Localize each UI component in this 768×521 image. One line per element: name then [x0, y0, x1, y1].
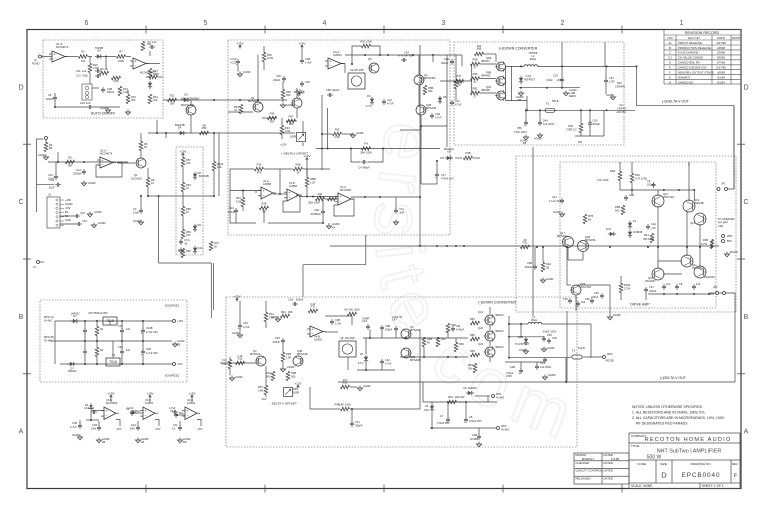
svg-text:CHECKED: CHECKED — [576, 461, 590, 465]
svg-text:C8: C8 — [469, 415, 473, 419]
svg-text:2SC1815: 2SC1815 — [131, 177, 142, 181]
svg-text:4.7uF: 4.7uF — [387, 102, 394, 106]
svg-text:AGND: AGND — [519, 348, 527, 352]
svg-text:IN 4AC: IN 4AC — [44, 319, 52, 323]
ecap C55 47uF 100V — [524, 121, 528, 123]
svg-text:+12V: +12V — [294, 381, 302, 385]
ecap 4.7uF stage 2 — [131, 410, 133, 414]
svg-text:350 1/2W: 350 1/2W — [643, 237, 655, 241]
ground AGND drive bottom — [609, 315, 611, 318]
jack +15V out — [173, 320, 176, 323]
svg-text:C26: C26 — [243, 321, 248, 325]
resistor RT1 9B left entry — [455, 79, 464, 83]
svg-text:240: 240 — [477, 44, 482, 48]
transistor Q4B MPSA2B — [293, 356, 303, 366]
svg-text:BAV70-ON: BAV70-ON — [181, 103, 194, 107]
svg-text:C1: C1 — [668, 56, 672, 60]
ground bank small — [525, 349, 527, 352]
wire B4 exit right y66 — [635, 65, 637, 67]
svg-text:APP'D: APP'D — [732, 36, 741, 40]
svg-text:AGND: AGND — [232, 331, 240, 335]
resistor R4B 47K — [618, 172, 622, 181]
svg-text:D3: D3 — [367, 94, 371, 98]
svg-text:4.1: 4.1 — [172, 427, 176, 431]
capacitor C1B 4.7uF — [430, 114, 434, 116]
svg-text:35K: 35K — [131, 98, 136, 102]
svg-text:TITLE:: TITLE: — [631, 444, 640, 448]
svg-text:C14: C14 — [76, 168, 81, 172]
transistor Q15 2SA1837 — [652, 268, 664, 280]
svg-text:.015uF: .015uF — [227, 210, 235, 214]
dots y100 — [213, 99, 215, 101]
svg-text:4.7uF 35V: 4.7uF 35V — [146, 351, 158, 355]
resistor R6 input vertical — [44, 143, 48, 152]
resistor RB7 a — [95, 327, 99, 336]
svg-text:R67: R67 — [258, 385, 263, 389]
svg-text:LM358: LM358 — [263, 182, 271, 186]
ground B2 a — [239, 72, 241, 75]
svg-text:+15V: +15V — [107, 391, 115, 395]
svg-text:1uF: 1uF — [666, 282, 671, 286]
feedback wires B6 — [419, 330, 421, 409]
resistor R21 on y100 — [168, 98, 177, 102]
diode Z6 C21 bottom row — [89, 405, 93, 408]
drive bottom wires — [575, 295, 577, 311]
svg-text:MPS (A): MPS (A) — [44, 315, 54, 319]
svg-text:50A: 50A — [135, 409, 140, 413]
svg-text:4.7uF: 4.7uF — [435, 116, 442, 120]
svg-text:TNF9B: TNF9B — [95, 46, 103, 50]
svg-text:U5: U5 — [340, 336, 344, 340]
svg-text:35K: 35K — [286, 93, 291, 97]
transistor Q6b MPSA0B — [401, 348, 411, 358]
svg-text:NEW REV OUTPUT STAGE: NEW REV OUTPUT STAGE — [678, 71, 714, 75]
svg-text:RELEASED: RELEASED — [576, 476, 591, 480]
transistor Q17 driver a — [563, 237, 574, 248]
wire vertical x303 into B6 — [302, 265, 304, 297]
wire B1 exit right — [146, 76, 149, 78]
svg-text:TO-FB7SET: TO-FB7SET — [515, 342, 530, 346]
capacitor C3B — [101, 88, 105, 90]
svg-text:C4T: C4T — [118, 324, 123, 328]
svg-text:-15V: -15V — [65, 206, 71, 210]
svg-text:AGND: AGND — [548, 373, 556, 377]
svg-text:LM393: LM393 — [333, 53, 342, 57]
svg-text:C41: C41 — [355, 420, 360, 424]
svg-text:DATED: DATED — [604, 469, 613, 473]
resistor R6B 1K mid — [294, 167, 303, 171]
svg-text:2BA 1/2W: 2BA 1/2W — [360, 151, 372, 155]
svg-text:IRF644: IRF644 — [481, 59, 490, 63]
dashed box control B2 — [228, 40, 450, 235]
wire fuse — [509, 357, 570, 359]
svg-text:10uF: 10uF — [133, 211, 139, 215]
resistor R41 2BA 1/2W — [362, 147, 371, 151]
svg-text:100: 100 — [186, 233, 191, 237]
svg-text:C12 .015u: C12 .015u — [76, 74, 89, 78]
resistor R2B 4B mid — [260, 206, 269, 210]
svg-text:R84: R84 — [468, 363, 473, 367]
svg-text:MC34074: MC34074 — [56, 45, 69, 49]
svg-text:(+)DOWN CONVERTER: (+)DOWN CONVERTER — [499, 47, 538, 51]
svg-text:500R: 500R — [293, 391, 299, 395]
svg-text:C4A: C4A — [651, 222, 656, 226]
svg-text:NHT SubTwo | AMPLIFIER: NHT SubTwo | AMPLIFIER — [657, 449, 722, 455]
svg-text:LM393: LM393 — [187, 401, 195, 405]
svg-text:C34: C34 — [404, 51, 409, 55]
svg-text:C25: C25 — [275, 336, 280, 340]
diode D4 drive — [610, 232, 614, 236]
mosfet M6 IRF644 bank — [485, 331, 495, 341]
B4 main wire y66 — [506, 65, 525, 67]
svg-text:GND: GND — [65, 218, 71, 222]
wire delta v out top — [637, 105, 735, 107]
svg-text:C10 1uF: C10 1uF — [80, 101, 91, 105]
node dots y55 bus — [364, 54, 366, 56]
capacitor C2B 1.4uF — [300, 59, 304, 61]
capacitor C47 4.5uF — [394, 327, 398, 329]
svg-text:7915: 7915 — [109, 360, 117, 364]
resistor R44 10K — [148, 95, 152, 104]
svg-text:980: 980 — [289, 122, 294, 126]
diode D4 BAV64A right — [447, 156, 451, 160]
svg-text:.1uF: .1uF — [125, 348, 131, 352]
svg-text:C52: C52 — [585, 297, 590, 301]
capacitor C25 033uF — [281, 339, 285, 341]
svg-text:C3: C3 — [133, 207, 137, 211]
svg-text:WP1: WP1 — [727, 234, 733, 238]
svg-text:4.8uF: 4.8uF — [546, 78, 553, 82]
svg-text:SHEET: 1 OF 1: SHEET: 1 OF 1 — [702, 484, 724, 488]
svg-text:C55: C55 — [517, 126, 522, 130]
wire y162 input — [48, 161, 128, 163]
resistor R16 horizontal — [112, 76, 121, 80]
resistor R43 5.9K — [280, 126, 284, 135]
op-amp U1-A LM358 mid — [261, 187, 273, 199]
svg-text:R16: R16 — [114, 79, 119, 83]
svg-text:R81: R81 — [470, 317, 475, 321]
title block — [574, 433, 740, 489]
svg-text:D44: D44 — [543, 119, 548, 123]
svg-text:4.7V: 4.7V — [366, 104, 372, 108]
svg-text:600uF: 600uF — [296, 298, 304, 302]
svg-text:R64: R64 — [635, 173, 640, 177]
svg-text:.33uF: .33uF — [48, 186, 55, 190]
zener Z3 5.1V — [364, 357, 368, 361]
svg-text:.1uF: .1uF — [399, 211, 405, 215]
svg-text:R62: R62 — [441, 337, 446, 341]
svg-text:4/5/99: 4/5/99 — [717, 71, 725, 75]
svg-text:2/1/97: 2/1/97 — [717, 80, 725, 84]
resistor R6 4B — [100, 71, 109, 75]
svg-text:+12V: +12V — [280, 143, 287, 147]
capacitor C10 1uF — [88, 105, 90, 109]
svg-text:D6: D6 — [443, 95, 447, 99]
svg-text:C2B: C2B — [472, 433, 477, 437]
ecap C4B 470uF 200V — [519, 369, 523, 371]
ground MGND speaker — [726, 252, 728, 255]
svg-text:C43: C43 — [540, 361, 545, 365]
jack WP2 output — [603, 356, 606, 359]
svg-text:-RC/5B: -RC/5B — [605, 359, 614, 363]
fuse F1 output — [572, 355, 582, 359]
svg-text:+15V: +15V — [177, 319, 183, 323]
capacitor CF2 rail — [675, 285, 679, 287]
resistor RT1 B6 — [309, 309, 318, 313]
svg-text:R43: R43 — [236, 196, 241, 200]
svg-text:R4B: R4B — [334, 403, 339, 407]
resistor C12 15K left — [228, 360, 232, 369]
svg-text:C19: C19 — [553, 74, 558, 78]
svg-text:RECOTON HOME AUDIO: RECOTON HOME AUDIO — [645, 437, 732, 443]
svg-text:1/7W: 1/7W — [701, 242, 708, 246]
transistor Q1 MPSA0B left — [253, 102, 263, 112]
svg-text:R1: R1 — [100, 327, 104, 331]
svg-text:4.7uF: 4.7uF — [243, 325, 250, 329]
svg-text:(+)DELTA V OUT: (+)DELTA V OUT — [662, 100, 690, 104]
inductor L1 bank horizontal — [528, 322, 542, 324]
ecap C44B 4.7uF 35V — [141, 329, 145, 331]
svg-text:R66: R66 — [459, 342, 464, 346]
resistor R16 470 mid — [255, 167, 264, 171]
svg-text:SOURCE1: SOURCE1 — [165, 304, 180, 308]
svg-text:-15V: -15V — [155, 427, 161, 431]
svg-text:R5: R5 — [68, 156, 72, 160]
svg-text:WP2: WP2 — [607, 352, 613, 356]
capacitor C41 drive — [560, 199, 564, 201]
svg-text:C3D: C3D — [314, 208, 319, 212]
svg-text:OP-2NP: OP-2NP — [354, 68, 364, 72]
dashed box drive amp inner — [560, 162, 716, 308]
svg-text:AGND: AGND — [177, 339, 185, 343]
svg-text:AGND: AGND — [65, 202, 73, 206]
svg-text:AGND: AGND — [133, 219, 141, 223]
svg-text:5x0-B: 5x0-B — [578, 346, 585, 350]
svg-text:4.7K 1/2W: 4.7K 1/2W — [635, 177, 648, 181]
svg-text:AGND: AGND — [88, 181, 96, 185]
resistor PNK 270R — [579, 124, 583, 133]
resistor R7B — [583, 215, 587, 224]
svg-text:WP1: WP1 — [496, 392, 502, 396]
svg-text:WP2: WP2 — [501, 424, 507, 428]
svg-text:500 W: 500 W — [647, 455, 662, 461]
svg-text:R83: R83 — [470, 349, 475, 353]
svg-text:1N4002: 1N4002 — [67, 369, 77, 373]
svg-text:15K: 15K — [217, 165, 222, 169]
svg-text:900: 900 — [270, 120, 275, 124]
svg-text:900: 900 — [266, 375, 271, 379]
svg-text:35uH: 35uH — [530, 57, 536, 61]
svg-text:270R 1/2: 270R 1/2 — [566, 128, 577, 132]
svg-text:C17: C17 — [441, 173, 446, 177]
wire B1 input — [41, 56, 52, 58]
svg-text:MPSA2B: MPSA2B — [297, 352, 308, 356]
node 2 — [83, 161, 85, 163]
svg-text:PROTO RELEASE: PROTO RELEASE — [678, 41, 702, 45]
svg-text:GARP: GARP — [362, 317, 370, 321]
svg-text:C58 .022uF: C58 .022uF — [326, 88, 340, 92]
ground left B6 — [231, 376, 233, 379]
ground AGND J2 a — [89, 212, 91, 215]
svg-text:C6B: C6B — [527, 261, 532, 265]
svg-text:+ DELTA 0 OFFSET: + DELTA 0 OFFSET — [281, 152, 308, 156]
svg-text:AGND: AGND — [235, 375, 243, 379]
svg-text:MPS4N6: MPS4N6 — [585, 238, 596, 242]
B6 wires misc — [369, 329, 371, 338]
svg-text:IRF644: IRF644 — [495, 345, 504, 349]
svg-text:AGND: AGND — [98, 221, 106, 225]
svg-text:PGND: PGND — [32, 62, 40, 66]
wire y357 B6 — [400, 356, 468, 358]
svg-text:D9: D9 — [198, 223, 202, 227]
resistor R4B 14K — [341, 407, 350, 411]
svg-text:5W-B: 5W-B — [552, 99, 559, 103]
svg-text:MPSA0B: MPSA0B — [294, 90, 305, 94]
svg-text:C22: C22 — [455, 99, 460, 103]
svg-text:D: D — [669, 61, 671, 65]
svg-text:200V: 200V — [557, 78, 563, 82]
svg-text:8/5/98: 8/5/98 — [717, 56, 725, 60]
svg-text:15K: 15K — [222, 362, 227, 366]
ecap C26 4.7uF — [238, 324, 242, 326]
capacitor C16 4.7uF — [382, 100, 386, 102]
ground R42 — [277, 317, 279, 320]
svg-text:635pF: 635pF — [385, 328, 393, 332]
svg-text:D5: D5 — [184, 93, 188, 97]
capacitor C9 200pF — [652, 183, 656, 185]
capacitor C34 mid row — [130, 411, 134, 413]
svg-text:+15V: +15V — [146, 391, 154, 395]
resistor R8 56 above Q1 — [139, 142, 143, 151]
resistor R57 ladder — [181, 158, 185, 167]
svg-text:C31: C31 — [399, 207, 404, 211]
ground C26 — [239, 333, 241, 336]
svg-text:Q21: Q21 — [478, 310, 483, 314]
svg-text:Q5: Q5 — [368, 57, 372, 61]
capacitor C2C — [300, 82, 304, 84]
svg-text:0.4V: 0.4V — [310, 302, 316, 306]
svg-text:1B: 1B — [177, 343, 180, 347]
svg-text:604uF: 604uF — [107, 90, 115, 94]
svg-text:IN 4A2: IN 4A2 — [501, 428, 509, 432]
svg-text:C24: C24 — [131, 423, 136, 427]
vertical feedback x322 — [321, 95, 323, 170]
svg-text:5K: 5K — [214, 245, 217, 249]
capacitor C6B 033 — [533, 265, 537, 267]
resistor R4B mid small — [328, 197, 337, 201]
svg-text:EPCB0040: EPCB0040 — [682, 472, 721, 479]
svg-text:600uF: 600uF — [46, 97, 54, 101]
jack J1 PGND — [39, 55, 42, 58]
svg-text:4A: 4A — [332, 226, 335, 230]
wire vertical x420 feedback — [419, 45, 421, 246]
svg-text:CHNGD C55,R54,C50: CHNGD C55,R54,C50 — [678, 66, 707, 70]
wire bottom rail y382 — [338, 381, 735, 383]
capacitor C9 top — [150, 45, 152, 49]
svg-text:2.7W: 2.7W — [624, 287, 631, 291]
svg-text:MPS (B): MPS (B) — [44, 335, 54, 339]
svg-text:AGND: AGND — [100, 106, 108, 110]
dashed box resistor ladder B3 — [176, 147, 203, 255]
ground R5B — [359, 386, 361, 389]
svg-text:C5: C5 — [170, 409, 174, 413]
zener D6 y100 — [438, 98, 442, 102]
svg-text:470: 470 — [257, 171, 262, 175]
resistor R8x — [454, 343, 458, 352]
svg-text:Q22: Q22 — [478, 326, 483, 330]
svg-text:2.86: 2.86 — [258, 389, 264, 393]
svg-text:R21: R21 — [170, 94, 175, 98]
svg-text:UPPR8: UPPR8 — [529, 51, 538, 55]
dashed box power source B7 — [40, 300, 187, 382]
wire vertical x533 rail — [532, 147, 534, 316]
svg-text:9/7/98: 9/7/98 — [717, 61, 725, 65]
op-amp stage 3 bottom row — [185, 407, 197, 420]
mosfet M5 IRF644 bank — [485, 315, 495, 325]
svg-text:R4B: R4B — [610, 169, 615, 173]
svg-text:MC34004: MC34004 — [106, 401, 118, 405]
ecap C8 470uF 25V — [464, 418, 468, 420]
resistor R20 1.5M — [88, 64, 92, 73]
svg-text:1/8/98: 1/8/98 — [717, 46, 725, 50]
svg-text:1uF 250V: 1uF 250V — [540, 365, 552, 369]
resistor R3B 1/7W — [710, 240, 714, 249]
svg-text:R3B: R3B — [703, 238, 708, 242]
diode D14 1N4002 — [73, 319, 77, 323]
transistor Q4B MPSA06 — [416, 105, 426, 115]
capacitor C6 J2 — [77, 222, 79, 226]
svg-text:1B: 1B — [141, 440, 144, 444]
svg-text:203/24B: 203/24B — [694, 201, 704, 205]
svg-text:2/5/98: 2/5/98 — [717, 51, 725, 55]
capacitor C30 220uF — [600, 294, 604, 296]
svg-text:SCALE: NONE: SCALE: NONE — [631, 484, 652, 488]
svg-text:C3: C3 — [126, 407, 130, 411]
svg-text:47uF 100V: 47uF 100V — [514, 130, 527, 134]
svg-text:B: B — [744, 314, 749, 321]
svg-text:10K: 10K — [68, 164, 73, 168]
svg-text:C61: C61 — [609, 76, 614, 80]
resistor R5 — [66, 160, 75, 164]
wire B4 top feed b — [604, 42, 606, 66]
svg-text:R47: R47 — [289, 115, 294, 119]
capacitor C19 4.8uF 200V — [560, 78, 564, 80]
resistor R84 bank bottom — [473, 364, 477, 373]
op-amp U4-A LM393 — [328, 58, 341, 69]
ground AGND B7 — [174, 342, 176, 345]
capacitor C34 TEA — [402, 58, 404, 62]
svg-text:10K: 10K — [170, 102, 175, 106]
svg-text:C53: C53 — [563, 297, 568, 301]
svg-text:SOURCE2: SOURCE2 — [165, 374, 180, 378]
svg-text:IRF64B: IRF64B — [481, 88, 490, 92]
node input — [57, 161, 59, 163]
capacitor C4 340pF loop — [351, 149, 361, 163]
capacitor C5 J2 — [75, 214, 77, 218]
wire input y363 — [220, 362, 256, 364]
svg-text:DATED: DATED — [604, 461, 613, 465]
wire mid y133 nodes — [156, 132, 158, 134]
wire B4 top feed a — [561, 42, 563, 66]
svg-text:C50: C50 — [593, 119, 598, 123]
svg-text:360pF: 360pF — [355, 424, 363, 428]
output bus components — [566, 246, 568, 248]
mosfet Q3B IRF644 c — [497, 91, 506, 100]
svg-text:-15V: -15V — [177, 362, 183, 366]
wire y338 B6 — [363, 337, 468, 339]
svg-text:JP1: JP1 — [721, 182, 726, 186]
resistor R4A on bus — [541, 263, 545, 272]
